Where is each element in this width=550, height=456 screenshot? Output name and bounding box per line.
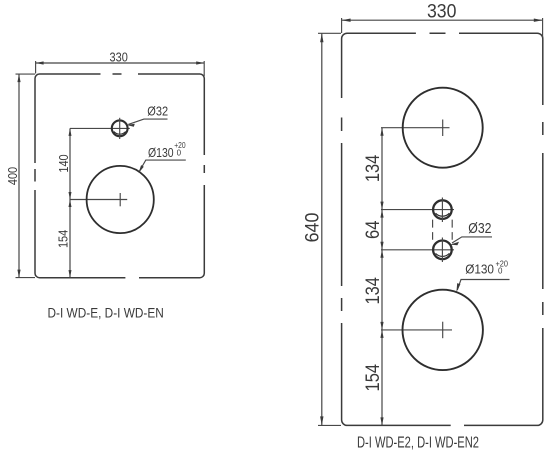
svg-text:D-I WD-E, D-I WD-EN: D-I WD-E, D-I WD-EN: [48, 306, 164, 321]
centerline to small hole (left): [70, 127, 130, 129]
svg-text:Ø130: Ø130: [465, 262, 494, 277]
svg-text:330: 330: [427, 0, 457, 22]
svg-text:154: 154: [362, 364, 384, 392]
leader and label D32 (right): [450, 220, 492, 245]
svg-text:140: 140: [56, 154, 71, 172]
extension lines for 330 (right): [341, 18, 343, 33]
centerline to top hole (right): [381, 127, 450, 129]
svg-text:64: 64: [362, 220, 384, 239]
centerline to upper small hole (right): [381, 209, 454, 211]
extension lines for 640 (right): [318, 32, 341, 34]
dimension 64 (right): [362, 210, 384, 250]
svg-text:Ø130: Ø130: [148, 145, 174, 160]
svg-text:400: 400: [5, 167, 20, 185]
leader and label D130+20/0 (left): [139, 141, 187, 173]
dimension 640 (right, vertical): [301, 33, 323, 425]
dimension 154 (right): [362, 330, 384, 426]
extension lines for 330 (left): [35, 61, 37, 74]
centerline to bottom hole (right): [381, 329, 452, 331]
leader and label D130+20/0 (right): [456, 259, 509, 292]
plate outline right (D-I WD-E2): [342, 33, 543, 425]
svg-text:640: 640: [301, 212, 323, 242]
leader and label D32 (left): [127, 104, 169, 127]
tangent dashed lines between small holes (right): [433, 220, 453, 240]
hole D32 upper (right): [433, 198, 452, 223]
dimension 154 (left, vertical): [56, 200, 72, 278]
dimension 400 (left, vertical): [5, 74, 20, 278]
hole D32 (left): [112, 118, 128, 139]
hole D130 top (right): [403, 88, 483, 168]
centerline to lower small hole (right): [381, 249, 454, 251]
plate outline left (D-I WD-E): [35, 74, 204, 278]
svg-text:Ø32: Ø32: [147, 104, 168, 119]
svg-text:154: 154: [56, 230, 71, 248]
svg-text:0: 0: [177, 148, 182, 157]
dimension 330 (right, horizontal): [342, 0, 543, 22]
centerline to big hole (left): [70, 199, 127, 201]
svg-text:D-I WD-E2, D-I WD-EN2: D-I WD-E2, D-I WD-EN2: [357, 434, 479, 451]
dimension 134 upper (right): [362, 128, 384, 210]
dimension 330 (left, horizontal): [36, 50, 205, 65]
hole D130 (left): [87, 166, 154, 233]
hole D32 lower (right): [433, 238, 452, 263]
svg-text:330: 330: [110, 50, 128, 65]
svg-text:Ø32: Ø32: [468, 220, 491, 237]
extension lines for 400 (left): [16, 73, 36, 75]
svg-text:0: 0: [498, 267, 503, 276]
hole D130 bottom (right): [403, 290, 483, 370]
svg-text:134: 134: [362, 155, 384, 183]
dimension 134 lower (right): [362, 250, 384, 330]
svg-text:134: 134: [362, 277, 384, 305]
dimension 140 (left, vertical): [56, 128, 71, 199]
